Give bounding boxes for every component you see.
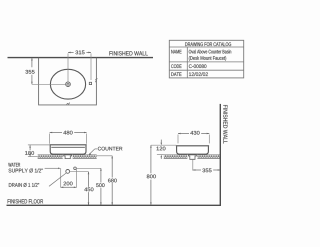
supply ext line to 500 dim: [76, 167, 101, 169]
dim 355 side arrows: [193, 169, 196, 171]
dim 480 line: [50, 132, 62, 134]
dim 480 text: [63, 131, 72, 135]
label CODE: [171, 64, 181, 68]
title block outer box: [169, 40, 243, 78]
dim 430 line: [178, 133, 189, 135]
FINISHED WALL label (plan): [109, 51, 147, 55]
title block row divider 1: [169, 61, 243, 63]
dim 180 arrows: [29, 145, 31, 148]
title: DRAWING FOR CATALOG: [185, 42, 231, 46]
dim 120 top arrow (outside): [160, 140, 162, 143]
dim 800 vertical: [150, 145, 152, 173]
counter rectangle (plan): [39, 58, 97, 105]
dim 355 plan arrows: [31, 58, 33, 61]
dim 680 ext line: [97, 155, 112, 157]
COUNTER label + leader: [98, 147, 123, 151]
basin inner rim line (front): [51, 146, 85, 148]
value name line 1: [189, 50, 231, 54]
drain ext line to 450 dim: [70, 171, 89, 173]
basin ellipse (plan): [50, 69, 85, 99]
dim 355 ext line to basin center: [32, 83, 66, 85]
dim 180 line: [29, 145, 31, 150]
dim 180 top ext line: [28, 144, 50, 146]
dim 355 plan line: [31, 58, 33, 67]
dim 319 arrows: [68, 52, 71, 54]
dim 355 side text: [202, 169, 211, 173]
dim 319 ext line left / basin centerline: [67, 53, 69, 82]
drain through counter (front): [63, 155, 73, 159]
supply point circle: [74, 167, 77, 170]
dim 450 vertical: [88, 172, 90, 187]
dim 180 bottom ext line: [28, 156, 38, 158]
water supply leader arrow: [45, 167, 59, 169]
finished wall line (side): [219, 104, 221, 206]
FINISHED WALL label (side, rotated): [223, 105, 227, 143]
dim 500 vertical: [100, 168, 102, 182]
dim 430 ext lines: [177, 135, 179, 144]
dim 430 text: [190, 131, 199, 135]
dim 355 side line: [193, 169, 201, 171]
drain ring (plan): [66, 82, 71, 87]
finished floor line: [7, 204, 221, 206]
dim 180 text: [25, 151, 34, 155]
label NAME: [171, 50, 181, 54]
rim level ext line (800/120): [151, 144, 176, 146]
200 box left vertical: [60, 168, 62, 187]
title block row divider 2: [169, 69, 243, 71]
dim 319 line: [68, 51, 74, 53]
200 box right vertical: [75, 168, 77, 187]
dim 800 text: [147, 175, 156, 179]
basin outline (side): [177, 146, 209, 154]
counter top ext line (side): [157, 154, 164, 156]
dim 120 bottom arrow (outside): [160, 157, 162, 159]
counter section band (side): [164, 155, 220, 159]
title block column divider: [186, 47, 188, 78]
finished wall line (plan): [8, 57, 154, 59]
FINISHED FLOOR label: [8, 199, 43, 203]
dim 319 text: [75, 51, 84, 55]
dim 120 text: [157, 147, 166, 151]
dim 480 arrows: [50, 132, 53, 134]
break mark bottom edge: [67, 103, 70, 105]
drain through counter (side): [187, 155, 197, 159]
drain leader diagonal: [49, 173, 66, 186]
drain circle (front): [66, 170, 70, 174]
break mark right edge: [95, 79, 97, 82]
dim 430 arrows: [178, 133, 181, 135]
value code: [189, 64, 207, 68]
title block header divider: [169, 46, 243, 48]
faucet hole (plan): [89, 82, 91, 84]
dim 450 text: [84, 188, 93, 192]
dim 355 plan text: [25, 70, 34, 74]
dim 355 drop line from drain: [192, 159, 194, 170]
value date: [189, 72, 208, 76]
label DATE: [171, 72, 181, 76]
dim 480 ext lines: [49, 134, 51, 144]
dim 319 ext line right: [90, 53, 92, 80]
WATER SUPPLY label: [8, 163, 20, 167]
dim 200 line + arrows: [61, 186, 77, 188]
counter section band (front): [38, 155, 97, 159]
dim 680 vertical: [111, 156, 113, 178]
dim 200 text: [63, 180, 74, 186]
basin outline (front): [50, 145, 86, 154]
dim 500 text: [96, 183, 104, 187]
dim 680 text: [108, 179, 117, 183]
DRAIN label: [9, 183, 39, 187]
value name line 2: [189, 56, 226, 61]
